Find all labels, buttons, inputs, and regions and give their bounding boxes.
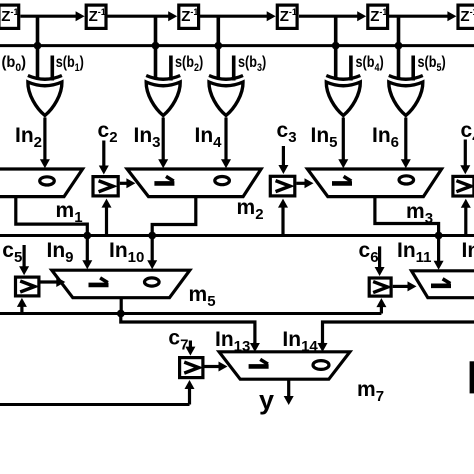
- svg-text:(b0): (b0): [2, 54, 27, 74]
- svg-text:c4: c4: [461, 119, 474, 146]
- svg-text:y: y: [259, 385, 274, 415]
- svg-text:In12: In12: [462, 239, 474, 266]
